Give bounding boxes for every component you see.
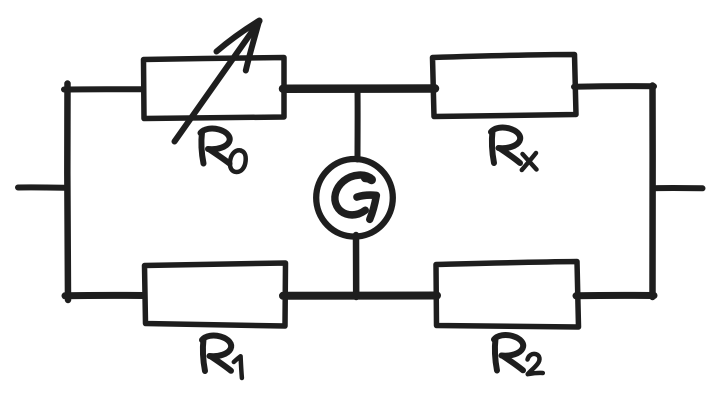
wire right vertical — [649, 86, 656, 298]
wire galvanometer bottom — [353, 235, 360, 297]
wire top-right horizontal — [574, 83, 654, 90]
wire galvanometer top — [355, 89, 361, 160]
wire top-left horizontal — [64, 86, 143, 92]
wire bottom-middle horizontal — [283, 291, 437, 299]
resistor R2 — [436, 262, 579, 328]
wire left terminal stub — [18, 184, 64, 190]
label R1 — [202, 336, 242, 378]
label R2 — [494, 335, 543, 374]
resistor R0 (variable) — [144, 21, 285, 142]
wire bottom-right horizontal — [576, 292, 654, 299]
resistor Rx — [433, 55, 577, 117]
label R0 — [201, 129, 246, 172]
label Rx — [491, 128, 537, 170]
wire bottom-left horizontal — [65, 292, 144, 299]
galvanometer G — [316, 159, 393, 237]
wire right terminal stub — [654, 185, 703, 191]
wire left vertical — [64, 84, 71, 301]
resistor R1 — [145, 263, 286, 326]
wire top-middle horizontal — [283, 84, 435, 93]
